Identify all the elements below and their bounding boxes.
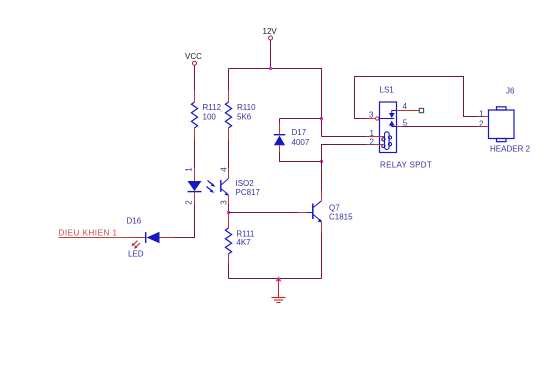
pin 2 stub — [367, 144, 385, 146]
svg-text:1: 1 — [479, 110, 484, 119]
pin 2 stub — [478, 126, 489, 128]
common contact line — [380, 118, 395, 120]
svg-text:1: 1 — [185, 167, 194, 172]
collector diagonal — [221, 179, 229, 186]
svg-text:VCC: VCC — [185, 52, 202, 61]
wire VCC to R112 — [194, 65, 196, 90]
svg-text:R112: R112 — [203, 103, 222, 112]
net label DIEU KHIEN 1 — [59, 229, 132, 238]
diode D16 LED — [127, 217, 175, 259]
wire R110 to ISO2 pin4 — [228, 140, 230, 168]
pin 4 lead — [228, 168, 230, 179]
emission arrow b — [136, 243, 141, 248]
svg-text:RELAY SPDT: RELAY SPDT — [380, 161, 432, 170]
wire relay pin5 to J6 pin2 — [402, 126, 478, 128]
op-amp ISO2 optocoupler PC817 — [185, 167, 261, 205]
power 12V — [263, 27, 278, 40]
wire R112 to ISO2 pin1 — [194, 140, 196, 168]
wire 12V stem — [270, 40, 272, 69]
svg-text:4: 4 — [403, 102, 408, 111]
svg-text:3: 3 — [369, 111, 374, 120]
wire relay pin1 feed — [322, 136, 367, 138]
pin 3 stub — [367, 118, 376, 120]
power VCC — [185, 52, 202, 65]
wire base net — [229, 212, 299, 214]
wire ISO2 pin2 to D16 — [175, 204, 195, 238]
pin 3 lead — [228, 195, 230, 204]
transistor Q7 — [298, 191, 353, 234]
wire top rail — [229, 68, 322, 70]
svg-text:ISO2: ISO2 — [236, 179, 255, 188]
wire D17 bottom branch — [280, 152, 322, 162]
svg-text:HEADER 2: HEADER 2 — [490, 145, 531, 154]
pin 2 lead — [194, 192, 196, 204]
svg-text:D17: D17 — [292, 128, 307, 137]
emitter arrowhead — [225, 192, 229, 195]
LED anode triangle — [188, 181, 202, 191]
svg-text:LED: LED — [128, 250, 144, 259]
svg-text:2: 2 — [185, 200, 194, 205]
light arrow a — [208, 181, 216, 187]
ground — [272, 276, 286, 302]
light arrow b — [207, 187, 215, 193]
junction D17 top — [320, 117, 323, 120]
svg-text:12V: 12V — [263, 27, 278, 36]
junction node base — [227, 211, 230, 214]
svg-text:2: 2 — [370, 137, 375, 146]
svg-text:DIEU KHIEN 1: DIEU KHIEN 1 — [59, 229, 118, 238]
svg-text:4007: 4007 — [292, 138, 310, 147]
svg-text:5K6: 5K6 — [237, 112, 252, 121]
svg-text:100: 100 — [203, 112, 217, 121]
pin 4 stub and no-connect square — [397, 110, 420, 112]
svg-text:4: 4 — [220, 167, 229, 172]
pin 1 stub — [478, 116, 489, 118]
resistor R112 — [191, 90, 221, 140]
wire Q7 emitter down — [321, 233, 323, 279]
svg-text:3: 3 — [220, 200, 229, 205]
svg-text:C1815: C1815 — [329, 213, 353, 222]
svg-text:4K7: 4K7 — [236, 238, 251, 247]
wire 12V rail down right — [321, 68, 323, 137]
pin 4 inner arm — [392, 111, 397, 114]
resistor R111 — [225, 213, 254, 264]
diode D17 — [274, 123, 310, 152]
junction D17 bottom — [320, 160, 323, 163]
wire relay pin3 net — [355, 77, 478, 119]
pin 5 stub — [397, 126, 402, 128]
emitter diagonal — [221, 189, 229, 196]
wire ISO2 pin3 down — [228, 204, 230, 213]
wire relay pin2 to collector — [322, 145, 367, 191]
coil — [382, 132, 392, 150]
wire bottom rail — [229, 278, 322, 280]
wire R111 to ground rail — [228, 263, 230, 279]
svg-text:LS1: LS1 — [380, 86, 395, 95]
junction 12V rail — [269, 67, 272, 70]
pin 1 lead — [194, 168, 196, 181]
svg-text:PC817: PC817 — [236, 188, 261, 197]
wire D17 left top — [279, 119, 281, 124]
relay LS1 — [367, 86, 433, 170]
LED cathode bar — [188, 191, 202, 193]
connector J6 — [478, 87, 531, 154]
emission arrow a — [133, 241, 138, 246]
pin 5 inner arm — [392, 126, 397, 127]
pin 1 stub — [367, 136, 385, 138]
svg-text:J6: J6 — [506, 87, 515, 96]
svg-text:R110: R110 — [237, 103, 256, 112]
resistor R110 — [225, 69, 256, 141]
svg-text:Q7: Q7 — [329, 204, 340, 213]
svg-text:2: 2 — [479, 119, 484, 128]
svg-text:D16: D16 — [127, 217, 142, 226]
phototransistor base bar — [220, 180, 222, 192]
wire D17 top branch — [280, 118, 322, 120]
